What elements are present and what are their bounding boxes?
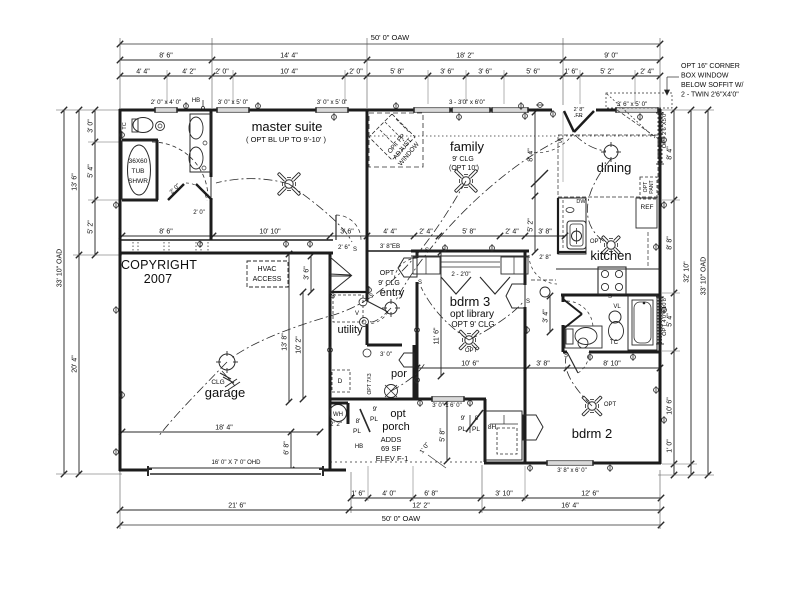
svg-text:3' 0" x 5' 0": 3' 0" x 5' 0" [317, 99, 348, 106]
svg-text:bdrm 3: bdrm 3 [450, 294, 490, 309]
svg-text:ACCESS: ACCESS [253, 276, 282, 283]
svg-text:FR: FR [575, 113, 582, 119]
svg-text:36X60: 36X60 [129, 158, 148, 165]
svg-text:opt library: opt library [450, 309, 494, 320]
svg-text:2' 0": 2' 0" [349, 69, 363, 76]
svg-text:8H: 8H [488, 424, 497, 431]
svg-text:50' 0" OAW: 50' 0" OAW [371, 33, 410, 42]
svg-text:11' 6": 11' 6" [434, 327, 441, 344]
svg-text:( OPT BL UP TO 9'-10' ): ( OPT BL UP TO 9'-10' ) [246, 135, 326, 144]
svg-text:3' 6": 3' 6" [440, 69, 454, 76]
svg-text:HB: HB [355, 444, 363, 450]
svg-text:OPT: OPT [590, 239, 603, 245]
svg-text:S: S [558, 139, 562, 145]
svg-text:8' 8": 8' 8" [667, 236, 674, 250]
svg-text:5' 8": 5' 8" [462, 229, 476, 236]
svg-text:3' 8": 3' 8" [538, 229, 552, 236]
svg-text:TUB: TUB [132, 168, 145, 175]
svg-text:BELOW SOFFIT W/: BELOW SOFFIT W/ [681, 82, 744, 89]
svg-text:3' 0": 3' 0" [88, 119, 95, 133]
svg-text:porch: porch [382, 421, 410, 433]
svg-text:master suite: master suite [252, 119, 323, 134]
svg-text:3' 4": 3' 4" [543, 309, 550, 323]
svg-text:1' 0": 1' 0" [667, 439, 674, 453]
svg-text:kitchen: kitchen [590, 248, 631, 263]
svg-text:S: S [331, 294, 335, 300]
svg-text:3 - 3'0" x 6'0": 3 - 3'0" x 6'0" [449, 99, 485, 106]
svg-text:VL: VL [613, 304, 621, 310]
svg-text:family: family [450, 139, 484, 154]
svg-text:OPT 2'6"X5'0": OPT 2'6"X5'0" [662, 112, 668, 149]
svg-text:2 - 2'0": 2 - 2'0" [451, 271, 470, 278]
svg-text:3' 0" x 5' 0": 3' 0" x 5' 0" [218, 99, 249, 106]
svg-text:TC: TC [122, 122, 128, 129]
svg-text:32' 10": 32' 10" [684, 261, 691, 283]
svg-text:5' 4": 5' 4" [88, 164, 95, 178]
svg-text:8' 6": 8' 6" [159, 53, 173, 60]
svg-text:3' 8" x 6' 0": 3' 8" x 6' 0" [557, 468, 587, 474]
svg-text:CLG: CLG [211, 379, 224, 386]
svg-text:8' 10": 8' 10" [603, 361, 621, 368]
svg-text:5' 8": 5' 8" [440, 428, 447, 442]
svg-text:2' 0": 2' 0" [215, 69, 229, 76]
svg-text:2' 4": 2' 4" [505, 229, 519, 236]
svg-text:4' 4": 4' 4" [383, 229, 397, 236]
svg-text:13' 8": 13' 8" [282, 333, 289, 351]
svg-text:2' 4": 2' 4" [419, 229, 433, 236]
svg-text:14' 4": 14' 4" [280, 53, 298, 60]
svg-text:3' 6": 3' 6" [478, 69, 492, 76]
svg-text:2007: 2007 [144, 272, 173, 286]
svg-text:3' 0" x 6' 0": 3' 0" x 6' 0" [432, 403, 462, 409]
svg-text:10' 4": 10' 4" [280, 69, 298, 76]
svg-text:10' 6": 10' 6" [667, 397, 674, 415]
svg-text:6' 8": 6' 8" [424, 491, 438, 498]
svg-text:2' 2": 2' 2" [330, 421, 342, 428]
svg-text:9' CLG: 9' CLG [378, 280, 400, 287]
svg-text:4' 2": 4' 2" [182, 69, 196, 76]
svg-text:3' 6": 3' 6" [340, 229, 354, 236]
svg-text:9': 9' [461, 415, 466, 422]
svg-text:HVAC: HVAC [258, 266, 277, 273]
svg-text:V: V [355, 311, 359, 317]
svg-text:OPT 16" CORNER: OPT 16" CORNER [681, 63, 740, 70]
svg-text:PANT: PANT [649, 179, 655, 193]
svg-text:3' 0": 3' 0" [380, 351, 392, 358]
svg-text:S: S [353, 247, 357, 253]
svg-text:bdrm 2: bdrm 2 [572, 426, 612, 441]
svg-text:3' 8"EB: 3' 8"EB [380, 243, 400, 250]
svg-text:S: S [425, 248, 429, 254]
svg-text:HB: HB [192, 98, 200, 104]
svg-text:garage: garage [205, 385, 245, 400]
svg-text:OPT 9' CLG: OPT 9' CLG [451, 320, 494, 329]
svg-text:5' 6": 5' 6" [526, 69, 540, 76]
svg-text:12' 2": 12' 2" [412, 503, 430, 510]
svg-text:69 SF: 69 SF [381, 444, 401, 453]
svg-text:por: por [391, 368, 407, 380]
svg-text:OPT 7X3: OPT 7X3 [367, 373, 373, 394]
svg-text:2' 0" x 4' 0": 2' 0" x 4' 0" [151, 99, 182, 106]
svg-text:33' 10" OAD: 33' 10" OAD [701, 257, 708, 295]
svg-text:3' 10": 3' 10" [495, 491, 513, 498]
svg-text:16' 4": 16' 4" [561, 503, 579, 510]
svg-text:opt: opt [390, 408, 405, 420]
svg-text:13' 6": 13' 6" [72, 173, 79, 191]
svg-text:S: S [369, 294, 373, 300]
svg-text:OPT: OPT [465, 348, 478, 354]
svg-text:16' 0" X 7' 0" OHD: 16' 0" X 7' 0" OHD [212, 460, 262, 466]
svg-text:2 - TWIN 2'6"X4'0": 2 - TWIN 2'6"X4'0" [681, 92, 739, 99]
svg-text:3' 6" x 5' 0": 3' 6" x 5' 0" [617, 101, 648, 108]
svg-text:5' 8": 5' 8" [390, 69, 404, 76]
svg-text:utility: utility [337, 324, 363, 336]
svg-text:2' 6": 2' 6" [338, 244, 350, 251]
svg-text:10' 6": 10' 6" [461, 361, 479, 368]
svg-text:PL: PL [472, 426, 480, 433]
svg-text:2' 0": 2' 0" [193, 210, 205, 216]
svg-text:S: S [564, 353, 568, 359]
svg-text:OPT: OPT [380, 270, 395, 277]
svg-text:4' 4": 4' 4" [136, 69, 150, 76]
svg-text:REF: REF [641, 204, 654, 211]
svg-text:PL: PL [458, 426, 466, 433]
svg-text:dining: dining [597, 160, 632, 175]
svg-text:S: S [418, 280, 422, 286]
svg-text:3' 6": 3' 6" [304, 266, 311, 280]
svg-text:PL: PL [370, 416, 378, 423]
svg-text:S: S [608, 294, 612, 300]
svg-text:OPT 4'0"X10'8": OPT 4'0"X10'8" [662, 296, 668, 336]
svg-text:10' 2": 10' 2" [296, 336, 303, 354]
svg-text:5' 2": 5' 2" [88, 220, 95, 234]
svg-text:DW: DW [576, 199, 586, 205]
svg-text:D: D [338, 378, 343, 385]
svg-text:OPT: OPT [604, 402, 617, 408]
svg-text:50' 0" OAW: 50' 0" OAW [382, 514, 421, 523]
svg-text:9' 0": 9' 0" [604, 53, 618, 60]
svg-text:21' 6": 21' 6" [228, 503, 246, 510]
svg-text:5' 2": 5' 2" [528, 218, 535, 232]
svg-text:18' 2": 18' 2" [456, 53, 474, 60]
svg-text:BOX WINDOW: BOX WINDOW [681, 73, 729, 80]
svg-text:8': 8' [356, 418, 361, 425]
svg-text:3' 8": 3' 8" [536, 361, 550, 368]
svg-text:5' 2": 5' 2" [600, 69, 614, 76]
svg-text:PL: PL [353, 428, 361, 435]
svg-text:entry: entry [380, 287, 405, 299]
svg-text:9': 9' [373, 406, 378, 413]
svg-text:1' 6": 1' 6" [564, 69, 578, 76]
svg-text:2' 4": 2' 4" [640, 69, 654, 76]
svg-text:20' 4": 20' 4" [72, 355, 79, 373]
svg-text:COPYRIGHT: COPYRIGHT [121, 258, 197, 272]
svg-text:6' 8": 6' 8" [284, 441, 291, 455]
svg-text:S: S [526, 299, 530, 305]
svg-text:18' 4": 18' 4" [215, 425, 233, 432]
svg-text:33' 10" OAD: 33' 10" OAD [57, 249, 64, 287]
svg-text:WH: WH [333, 412, 343, 418]
svg-text:8' 6": 8' 6" [159, 229, 173, 236]
svg-text:SHWR: SHWR [128, 178, 148, 185]
svg-text:9' CLG: 9' CLG [452, 156, 474, 163]
svg-text:2' 8": 2' 8" [539, 255, 551, 261]
svg-text:12' 6": 12' 6" [581, 491, 599, 498]
svg-text:4' 0": 4' 0" [382, 491, 396, 498]
svg-text:ADDS: ADDS [381, 435, 402, 444]
svg-text:10' 10": 10' 10" [259, 229, 281, 236]
svg-text:1' 6": 1' 6" [351, 491, 365, 498]
